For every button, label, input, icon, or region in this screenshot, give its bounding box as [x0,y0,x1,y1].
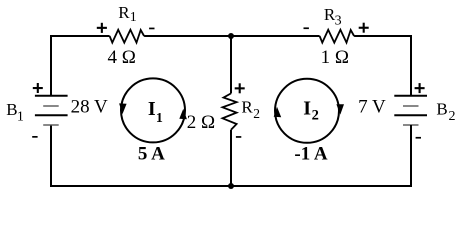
polarity - left of R3 [304,27,309,29]
resistor R1 zigzag [110,30,145,43]
mesh loop I2 circle (clockwise) [275,79,339,143]
polarity - below B1 [32,136,37,138]
mesh loop I2 right arrowhead pointing down [336,104,344,114]
mesh loop I1 right arrowhead pointing up [179,109,187,119]
svg-text:28 V: 28 V [71,96,108,117]
resistor R2 vertical zigzag [223,93,237,129]
polarity - below R2 right side [236,136,241,138]
battery B2 plate short bottom [403,124,419,126]
polarity - right of R1 [149,28,154,30]
mesh loop I1 left arrowhead pointing down [119,103,127,114]
svg-text:2: 2 [253,106,260,121]
svg-text:I: I [303,98,311,120]
svg-text:5 A: 5 A [138,144,165,165]
battery B2 plate short [403,105,419,107]
svg-text:2 Ω: 2 Ω [187,112,215,133]
wire: R1 to node A [144,35,231,37]
wire: top-left from B1 plus terminal up and right to R1 [51,36,110,96]
svg-text:B: B [436,99,447,118]
battery B1 plate long [35,114,68,116]
wire: B2 minus terminal down to bottom-right corner to node B [231,125,411,186]
wire: R2 down to node B [230,130,232,186]
polarity + right of R3 [359,23,369,33]
battery B1 plate long top [35,95,68,97]
svg-text:R: R [118,3,130,22]
svg-text:4 Ω: 4 Ω [108,47,136,68]
wire: R3 to top-right corner down to B2 [354,36,411,96]
svg-text:2: 2 [312,107,319,123]
svg-text:-1 A: -1 A [294,144,328,165]
svg-text:1 Ω: 1 Ω [321,47,349,68]
svg-text:2: 2 [449,109,456,124]
wire: node A down to R2 [230,36,232,93]
svg-text:3: 3 [335,13,342,28]
battery B2 plate long top [394,95,427,97]
svg-text:I: I [148,98,156,120]
svg-text:1: 1 [156,111,163,126]
svg-text:1: 1 [130,10,137,25]
mesh loop I2 left arrowhead pointing up [274,107,282,117]
svg-text:B: B [6,100,17,119]
polarity - below B2 right of wire [416,137,421,139]
polarity + left of R1 [97,23,107,33]
wire: node A to R3 [231,35,320,37]
svg-text:R: R [241,98,253,117]
wire: node B to bottom-left corner up to B1 minus terminal [51,125,231,186]
polarity + above B2 right of wire [415,83,425,93]
mesh loop I1 circle (counterclockwise) [121,78,185,142]
battery B1 plate short [43,105,59,107]
svg-text:7 V: 7 V [358,96,386,117]
battery B2 plate long [394,114,427,116]
node B junction dot (bottom middle) [228,183,234,189]
polarity + above R2 right side [235,83,245,93]
resistor R3 zigzag [320,30,355,43]
svg-text:1: 1 [17,109,24,124]
polarity + above B1 [33,83,43,93]
node A junction dot (top middle) [228,33,234,39]
battery B1 plate short bottom [43,124,59,126]
